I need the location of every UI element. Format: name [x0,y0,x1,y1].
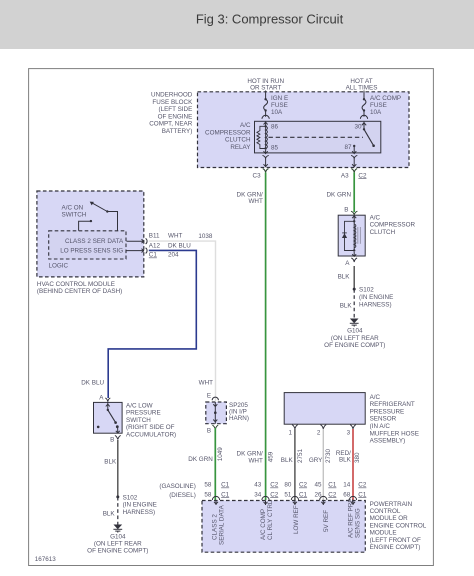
svg-text:PRESSURE: PRESSURE [126,410,161,417]
svg-text:1038: 1038 [198,233,213,240]
svg-text:DK BLU: DK BLU [81,380,104,387]
svg-text:BATTERY): BATTERY) [162,128,193,135]
svg-text:2730: 2730 [325,448,332,463]
svg-text:B11: B11 [149,232,160,239]
svg-text:34: 34 [254,491,262,498]
svg-text:B: B [207,428,211,435]
svg-text:WHT: WHT [248,457,262,464]
svg-text:C2: C2 [299,482,308,489]
svg-text:C1: C1 [221,482,230,489]
svg-text:1049: 1049 [217,447,224,462]
svg-text:WHT: WHT [248,198,262,205]
svg-text:POWERTRAIN: POWERTRAIN [370,501,413,508]
svg-text:(ON LEFT REAR: (ON LEFT REAR [94,541,142,548]
svg-text:51: 51 [284,491,292,498]
svg-text:(BEHIND CENTER OF DASH): (BEHIND CENTER OF DASH) [37,288,122,295]
svg-text:ASSEMBLY): ASSEMBLY) [370,438,406,445]
svg-text:14: 14 [343,482,351,489]
svg-text:CONTROL: CONTROL [370,508,401,515]
svg-text:45: 45 [314,482,322,489]
svg-text:(DIESEL): (DIESEL) [169,492,196,499]
svg-text:167613: 167613 [35,556,57,563]
svg-text:BLK: BLK [103,511,116,518]
svg-text:(GASOLINE): (GASOLINE) [159,483,195,490]
svg-text:2751: 2751 [297,448,304,463]
svg-text:C1: C1 [328,482,337,489]
svg-text:C1: C1 [149,252,158,259]
svg-text:CLASS 2: CLASS 2 [211,514,218,540]
svg-text:S102: S102 [359,287,374,294]
svg-text:MODULE: MODULE [370,530,397,537]
svg-text:1: 1 [288,430,292,437]
svg-text:COMPRESSOR: COMPRESSOR [205,129,251,136]
svg-text:G104: G104 [110,533,126,540]
svg-text:A/C LOW: A/C LOW [126,402,153,409]
svg-text:HARNESS): HARNESS) [359,301,392,308]
svg-text:87: 87 [344,144,352,151]
svg-text:(LEFT FRONT OF: (LEFT FRONT OF [370,537,421,544]
svg-text:(IN ENGINE: (IN ENGINE [359,294,393,301]
svg-text:C2: C2 [270,491,279,498]
svg-text:A/C REF PRE: A/C REF PRE [347,498,354,538]
svg-text:SWITCH: SWITCH [62,212,87,219]
svg-text:A12: A12 [149,243,161,250]
svg-text:ENGINE COMPT): ENGINE COMPT) [370,544,421,551]
svg-text:BLK: BLK [281,457,294,464]
svg-text:C1: C1 [299,491,308,498]
svg-text:A/C: A/C [370,214,381,221]
svg-text:80: 80 [284,482,292,489]
svg-text:OF ENGINE: OF ENGINE [158,113,193,120]
svg-text:LOW REF: LOW REF [293,505,300,534]
svg-text:58: 58 [204,482,212,489]
svg-text:B: B [344,207,348,214]
svg-text:(ON LEFT REAR: (ON LEFT REAR [331,335,379,342]
svg-text:68: 68 [343,491,351,498]
svg-text:HARN): HARN) [229,415,249,422]
svg-text:86: 86 [271,124,279,131]
svg-text:LOGIC: LOGIC [49,262,69,269]
svg-text:380: 380 [354,452,361,463]
svg-text:C2: C2 [328,491,337,498]
svg-text:FUSE: FUSE [271,102,288,109]
svg-text:HVAC CONTROL MODULE: HVAC CONTROL MODULE [37,281,115,288]
svg-text:C2: C2 [358,482,367,489]
svg-text:SERIAL DATA: SERIAL DATA [218,504,225,545]
svg-text:CL RLY CTRL: CL RLY CTRL [267,500,274,540]
svg-text:ALL TIMES: ALL TIMES [346,85,378,92]
svg-text:HARNESS): HARNESS) [123,509,156,516]
svg-text:A3: A3 [341,172,349,179]
svg-text:OF ENGINE COMPT): OF ENGINE COMPT) [324,342,385,349]
svg-text:SENS SIG: SENS SIG [354,508,361,538]
svg-text:FUSE BLOCK: FUSE BLOCK [152,99,193,106]
svg-text:DK BLU: DK BLU [168,243,191,250]
svg-text:C2: C2 [270,482,279,489]
svg-text:58: 58 [204,491,212,498]
svg-text:BLK: BLK [338,273,351,280]
svg-text:(IN A/C: (IN A/C [370,423,391,430]
svg-text:WHT: WHT [168,232,182,239]
svg-text:(LEFT SIDE: (LEFT SIDE [158,106,192,113]
svg-text:459: 459 [267,451,274,462]
svg-text:2: 2 [317,430,321,437]
svg-text:BLK: BLK [339,457,352,464]
svg-text:UNDERHOOD: UNDERHOOD [151,92,193,99]
svg-text:LO PRESS SENS SIG: LO PRESS SENS SIG [60,248,123,255]
svg-text:CLUTCH: CLUTCH [225,137,251,144]
svg-text:COMPRESSOR: COMPRESSOR [370,222,416,229]
svg-text:C1: C1 [358,491,367,498]
svg-text:C1: C1 [221,491,230,498]
svg-text:MODULE OR: MODULE OR [370,515,409,522]
svg-text:(RIGHT SIDE OF: (RIGHT SIDE OF [126,424,175,431]
svg-text:43: 43 [254,482,262,489]
svg-text:SENSOR: SENSOR [370,416,397,423]
svg-text:RELAY: RELAY [230,144,251,151]
svg-text:A/C: A/C [240,122,251,129]
svg-text:CLUTCH: CLUTCH [370,229,396,236]
svg-text:(IN ENGINE: (IN ENGINE [123,502,157,509]
svg-text:A/C ON: A/C ON [62,205,84,212]
svg-text:ENGINE CONTROL: ENGINE CONTROL [370,522,427,529]
svg-text:10A: 10A [271,109,283,116]
svg-text:BLK: BLK [104,459,117,466]
svg-text:204: 204 [168,252,179,259]
svg-text:C2: C2 [358,172,367,179]
svg-text:G104: G104 [347,328,363,335]
svg-text:30: 30 [354,124,362,131]
svg-text:BLK: BLK [340,302,353,309]
svg-text:E: E [207,392,211,399]
svg-text:PRESSURE: PRESSURE [370,408,405,415]
svg-text:MUFFLER HOSE: MUFFLER HOSE [370,430,419,437]
svg-text:C3: C3 [253,172,262,179]
svg-text:COMPT, NEAR: COMPT, NEAR [149,121,192,128]
svg-text:DK GRN: DK GRN [188,456,213,463]
svg-text:A/C COMP: A/C COMP [260,509,267,540]
svg-text:SWITCH: SWITCH [126,417,151,424]
svg-text:FUSE: FUSE [370,102,387,109]
svg-text:GRY: GRY [309,457,323,464]
svg-text:ACCUMULATOR): ACCUMULATOR) [126,432,176,439]
svg-text:REFRIGERANT: REFRIGERANT [370,401,415,408]
svg-text:5V REF: 5V REF [323,510,330,532]
svg-text:10A: 10A [370,109,382,116]
svg-text:DK GRN: DK GRN [327,192,352,199]
svg-text:OF ENGINE COMPT): OF ENGINE COMPT) [87,548,148,555]
svg-text:WHT: WHT [199,380,213,387]
svg-text:3: 3 [347,430,351,437]
svg-text:S102: S102 [123,494,138,501]
svg-text:Fig 3: Compressor Circuit: Fig 3: Compressor Circuit [196,12,344,27]
svg-text:A/C: A/C [370,394,381,401]
svg-text:85: 85 [271,145,279,152]
svg-text:B: B [110,437,114,444]
svg-text:CLASS 2 SER DATA: CLASS 2 SER DATA [65,238,124,245]
